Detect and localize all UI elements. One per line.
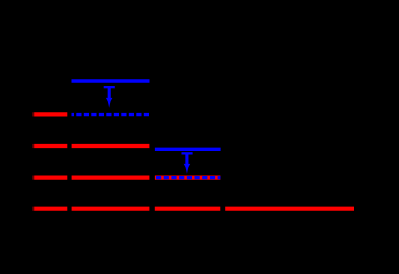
blue interval A (new interval, row 1) (72, 79, 150, 83)
row 5 red segment 1 (32, 207, 354, 211)
row 5 red segment 4 (225, 207, 354, 211)
row 5 red segment 2 (72, 207, 150, 211)
row 5 red segment 3 (155, 207, 221, 211)
row 4 dashed blue interval B over red (155, 176, 221, 179)
row 2 red segment 1 (32, 112, 67, 116)
row 3 red segment 2 (72, 144, 150, 148)
row 4 red segment 2 (72, 176, 150, 180)
arrow 2 (insert arrow, bar-down-arrow) (182, 152, 193, 174)
row 3 red segment 1 (32, 144, 149, 148)
row 2 dashed blue interval A (72, 113, 150, 116)
blue interval B (new interval, row 3) (155, 148, 221, 151)
row 4 red segment 1 (32, 176, 220, 180)
row 4 red segment 3 (under stripes) (155, 176, 221, 180)
arrow 1 (insert arrow, bar-down-arrow) (104, 86, 115, 108)
